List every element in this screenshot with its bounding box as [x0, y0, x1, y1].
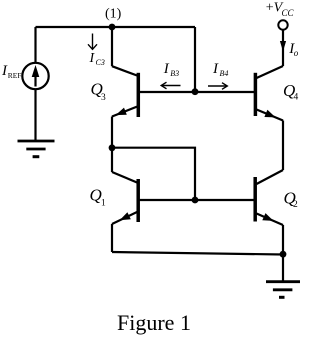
- node dot base rail: [192, 88, 199, 95]
- transistor Q4: [255, 66, 283, 121]
- wire Q1/Q2 base rail: [140, 199, 255, 201]
- Q1 emitter arrowhead: [120, 212, 131, 220]
- svg-text:I: I: [212, 61, 219, 77]
- svg-text:CC: CC: [282, 8, 295, 18]
- svg-text:REF: REF: [8, 71, 22, 80]
- Io current arrowhead: [280, 41, 286, 52]
- IB4 annotation arrow: [208, 83, 227, 90]
- svg-text:Q: Q: [90, 186, 102, 205]
- svg-text:Figure 1: Figure 1: [117, 310, 191, 335]
- Vcc terminal circle: [278, 20, 287, 29]
- svg-text:B3: B3: [170, 69, 179, 78]
- svg-text:C3: C3: [96, 58, 105, 67]
- wire current source to ground: [34, 90, 36, 141]
- wire base rail Q3-Q4: [140, 91, 255, 93]
- wire node 1 drop: [111, 27, 113, 66]
- wire node A to Q1/Q2 base rail: [112, 148, 195, 200]
- Q2 emitter arrowhead: [262, 213, 273, 221]
- Q4 emitter arrowhead: [264, 110, 275, 118]
- node dot bottom right: [280, 251, 287, 258]
- transistor Q3: [112, 66, 138, 117]
- svg-text:2: 2: [293, 200, 298, 210]
- node dot Q1/Q2 base: [192, 197, 199, 204]
- transistor Q2: [255, 170, 283, 225]
- wire top rail: [36, 26, 196, 28]
- svg-text:3: 3: [101, 93, 106, 103]
- ground (right): [266, 282, 300, 298]
- svg-text:o: o: [294, 48, 299, 58]
- wire right drop from top rail to base rail: [194, 27, 196, 92]
- svg-text:4: 4: [294, 93, 299, 103]
- IB3 annotation arrow: [161, 82, 180, 89]
- svg-text:I: I: [89, 51, 96, 66]
- svg-text:B4: B4: [220, 69, 229, 78]
- wire Q2 emitter down to ground: [282, 225, 284, 281]
- svg-text:I: I: [163, 61, 170, 77]
- wire Vcc terminal to Q4 collector: [282, 30, 284, 66]
- wire Q1 collector drop: [111, 148, 113, 172]
- node (1) dot: [109, 24, 116, 31]
- node dot Q3 emitter: [109, 144, 116, 151]
- wire bottom rail: [112, 252, 283, 255]
- Q3 emitter arrowhead: [116, 108, 127, 116]
- wire Q4 emitter to Q2 collector: [282, 121, 284, 171]
- wire Q1 emitter down: [111, 224, 113, 252]
- svg-text:1: 1: [101, 199, 106, 209]
- current source IREF: [22, 63, 48, 89]
- wire left drop to current source: [34, 27, 36, 63]
- ground (left): [18, 141, 55, 157]
- svg-text:(1): (1): [105, 7, 122, 22]
- transistor Q1: [112, 172, 138, 224]
- IC3 annotation arrow: [88, 34, 97, 50]
- wire Q3 emitter node down: [111, 117, 113, 149]
